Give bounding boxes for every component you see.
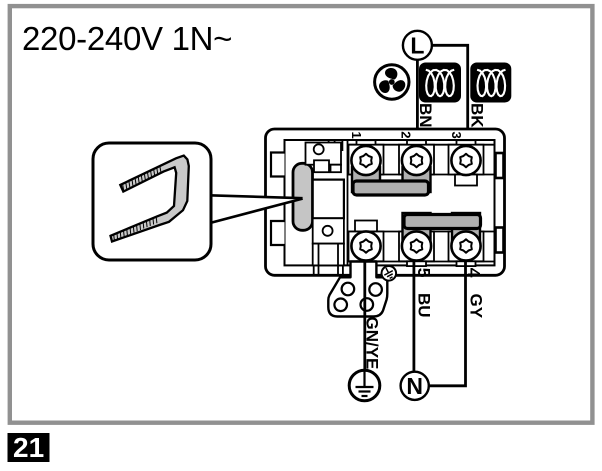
wire terminal 6 to earth: [363, 260, 366, 370]
svg-text:BN: BN: [416, 103, 435, 128]
terminal 4 screw: [451, 231, 480, 260]
top slot walls: [329, 141, 343, 151]
svg-text:3: 3: [449, 132, 464, 139]
left clip bottom: [271, 221, 285, 245]
heating element BN box: [419, 63, 461, 103]
right clip top: [496, 153, 504, 178]
node L: [403, 31, 432, 60]
svg-text:N: N: [406, 373, 423, 399]
svg-text:220-240V 1N~: 220-240V 1N~: [22, 20, 232, 57]
jumper bar terminals 1-2: [352, 167, 431, 195]
terminal 4 backing: [449, 232, 484, 267]
svg-text:1: 1: [349, 132, 364, 139]
step number 21: [8, 432, 50, 463]
divider line: [347, 140, 349, 265]
svg-text:L: L: [410, 33, 424, 59]
terminal 2 screw: [402, 146, 431, 175]
svg-text:2: 2: [399, 131, 414, 138]
callout tail: [208, 194, 303, 225]
node N: [401, 372, 429, 400]
cable clamp: [328, 262, 387, 317]
earth ground symbol: [349, 370, 380, 401]
top rail lines: [348, 145, 495, 262]
terminal 1 backing: [349, 140, 384, 174]
fan motor icon: [375, 65, 409, 99]
jumper staple drawing: [111, 156, 189, 242]
svg-text:GY: GY: [467, 294, 486, 319]
svg-text:BK: BK: [467, 103, 486, 128]
callout box: [93, 143, 211, 260]
left interior top panel: [306, 143, 342, 173]
right clip bottom: [496, 228, 504, 253]
svg-text:21: 21: [13, 432, 44, 463]
wire L to terminal 3: [431, 45, 468, 143]
terminal block outer body: [266, 129, 505, 275]
svg-text:5: 5: [414, 268, 434, 278]
left interior middle box: [313, 180, 344, 219]
svg-text:GN/YE: GN/YE: [363, 317, 382, 370]
terminal 3 screw: [451, 146, 480, 175]
jumper holder (grey): [293, 163, 313, 230]
earth screw on block: [382, 266, 397, 281]
svg-text:BU: BU: [415, 293, 434, 318]
terminal 1 screw: [351, 146, 380, 175]
wire L to terminal 2: [416, 59, 419, 143]
left interior bottom panel: [313, 218, 344, 274]
terminal 5 screw: [402, 231, 431, 260]
jumper bar terminals 4-5: [403, 213, 481, 242]
wire terminal 4 to N: [429, 260, 466, 386]
terminal block inner wall: [285, 140, 495, 265]
wire terminal 5 to N: [412, 260, 415, 372]
terminal 3 backing: [449, 140, 484, 185]
terminal 6 screw: [351, 231, 380, 260]
left clip top: [271, 153, 285, 177]
terminal 2 backing: [399, 140, 434, 174]
terminal 6 backing: [349, 221, 384, 267]
heating element BK box: [470, 63, 511, 103]
terminal 5 backing: [399, 232, 434, 267]
